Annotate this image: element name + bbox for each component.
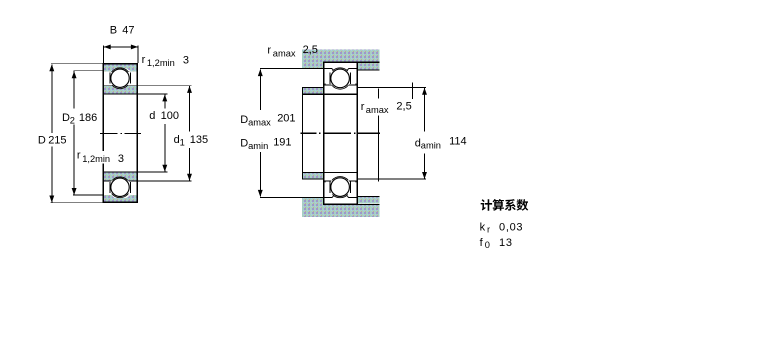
- housing shoulder line bottom: [260, 197, 357, 199]
- svg-text:2: 2: [70, 115, 75, 125]
- d1 dimension: [189, 86, 191, 181]
- shaft right cut: [377, 88, 379, 98]
- groove clearance bottom: [109, 177, 130, 198]
- shaft shoulder top (blue): [302, 88, 323, 94]
- bearing outline: [103, 64, 137, 203]
- bore line top (d level): [103, 93, 167, 95]
- shaft shoulder bottom (blue): [302, 173, 323, 179]
- svg-text:2,5: 2,5: [303, 44, 318, 56]
- label CJK JISUAN XISHU: [481, 199, 529, 211]
- svg-text:r: r: [267, 45, 271, 57]
- svg-text:amax: amax: [248, 117, 271, 127]
- inner ring shoulder line top (d1 level): [103, 85, 191, 87]
- d_a ext top: [357, 86, 426, 88]
- groove clearance top right: [329, 68, 350, 89]
- inner ring shoulder line top right (d1): [324, 84, 358, 86]
- svg-text:f: f: [480, 237, 484, 249]
- inner ring bottom (blue): [103, 173, 137, 181]
- housing band bottom (blue): [302, 205, 379, 217]
- svg-text:d: d: [149, 110, 155, 122]
- svg-text:1: 1: [180, 137, 185, 147]
- svg-text:k: k: [480, 221, 486, 233]
- svg-text:135: 135: [190, 134, 208, 146]
- inner ring shoulder line bottom right (d1): [324, 180, 358, 182]
- ball top: [111, 69, 129, 87]
- housing spacer right bottom (blue): [358, 197, 380, 204]
- svg-text:D: D: [38, 134, 46, 146]
- bearing outline right: [324, 62, 358, 204]
- center line right: [300, 132, 380, 134]
- groove notch bottom right: [332, 195, 349, 198]
- inner ring shoulder line bottom (d1 level): [103, 180, 191, 182]
- svg-text:0: 0: [485, 240, 490, 250]
- groove notch bottom: [111, 195, 131, 198]
- svg-text:amin: amin: [421, 141, 441, 151]
- outer ring top (blue): [103, 64, 137, 71]
- groove notch top: [111, 68, 131, 71]
- B dimension: [103, 45, 138, 63]
- svg-text:r: r: [77, 150, 81, 162]
- Da dimension: [259, 69, 261, 196]
- ball top right: [331, 69, 350, 88]
- svg-text:100: 100: [161, 110, 179, 122]
- groove notch top right: [332, 68, 349, 71]
- groove clearance top: [109, 68, 130, 89]
- svg-text:47: 47: [122, 25, 134, 37]
- svg-text:3: 3: [118, 153, 124, 165]
- damin dimension: [424, 88, 426, 179]
- bore/shaft surface bottom right: [302, 172, 357, 174]
- housing shoulder left top (blue): [302, 62, 324, 68]
- svg-text:215: 215: [48, 134, 66, 146]
- svg-text:2,5: 2,5: [396, 100, 411, 112]
- spacer bottom line top right: [357, 69, 379, 71]
- shaft shoulder top edge: [302, 87, 323, 89]
- housing spacer right top (blue): [358, 63, 380, 70]
- inner ring top (blue): [103, 86, 137, 94]
- svg-text:0,03: 0,03: [499, 221, 523, 233]
- ball bottom: [111, 178, 129, 196]
- text gap on bearing edge: [100, 151, 112, 164]
- center line: [100, 132, 141, 134]
- bore line bottom (d level): [103, 171, 167, 173]
- housing shoulder line top: [260, 68, 357, 70]
- svg-text:191: 191: [273, 137, 291, 149]
- D dimension: [51, 64, 104, 203]
- svg-text:amax: amax: [366, 105, 389, 115]
- B arrows: [104, 44, 138, 49]
- chamfer ticks inner ring right: [325, 84, 356, 183]
- svg-text:D: D: [240, 138, 248, 150]
- housing band top (blue): [302, 49, 379, 61]
- OD line ext top right: [357, 61, 379, 63]
- OD line ext bottom right: [357, 203, 379, 205]
- shaft left cut: [301, 87, 303, 179]
- r_a tick: [412, 83, 414, 99]
- bore/shaft surface top right: [302, 93, 357, 95]
- svg-text:13: 13: [499, 237, 513, 249]
- svg-text:D: D: [240, 114, 248, 126]
- svg-text:r: r: [361, 101, 365, 113]
- d_a ext bottom: [357, 178, 426, 180]
- svg-text:r: r: [142, 54, 146, 66]
- svg-text:r: r: [487, 225, 490, 235]
- svg-text:B: B: [110, 25, 117, 37]
- svg-text:1,2min: 1,2min: [147, 58, 175, 68]
- D2 dimension: [73, 71, 103, 195]
- d dimension: [164, 95, 166, 172]
- svg-text:186: 186: [79, 112, 97, 124]
- ball bottom right: [331, 178, 350, 197]
- spacer top line bottom right: [357, 195, 379, 197]
- svg-text:3: 3: [183, 54, 189, 66]
- outer ring bottom (blue): [103, 195, 137, 202]
- shaft shoulder bottom edge: [302, 178, 323, 180]
- groove clearance bottom right: [329, 176, 350, 197]
- groove notch slants bottom: [332, 195, 349, 197]
- groove notch slants top: [332, 69, 349, 71]
- housing shoulder left bottom (blue): [302, 198, 324, 205]
- svg-text:114: 114: [449, 135, 467, 147]
- svg-text:amin: amin: [248, 141, 268, 151]
- svg-text:1,2min: 1,2min: [82, 154, 110, 164]
- svg-text:201: 201: [277, 113, 295, 125]
- svg-text:amax: amax: [273, 48, 296, 58]
